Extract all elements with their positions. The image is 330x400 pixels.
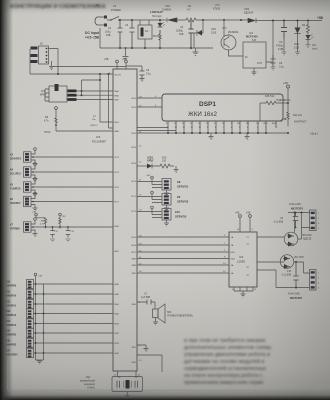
svg-text:IC2: IC2 xyxy=(249,31,254,35)
svg-text:5.1В: 5.1В xyxy=(211,32,216,35)
wire MCU RE2 down right xyxy=(137,355,162,372)
svg-text:MCLR: MCLR xyxy=(115,75,122,77)
capacitor C6 xyxy=(271,55,285,70)
svg-text:13: 13 xyxy=(254,289,256,291)
+5V +12V feeds for IC4 xyxy=(235,212,254,233)
svg-text:DSP1: DSP1 xyxy=(199,101,216,108)
motor2 wires xyxy=(257,262,310,288)
svg-text:RD3: RD3 xyxy=(132,147,137,149)
crystal ZQ1 xyxy=(80,377,143,399)
resistor R15 backlight xyxy=(260,95,291,121)
connector К13 analog xyxy=(6,309,113,318)
IC4 ground pins xyxy=(234,287,253,294)
svg-text:0.1µ 50В: 0.1µ 50В xyxy=(274,222,284,224)
svg-text:510: 510 xyxy=(162,160,167,163)
svg-text:резонатор: резонатор xyxy=(84,384,96,386)
svg-text:SERVO3: SERVO3 xyxy=(175,215,187,219)
svg-text:INT/RB0: INT/RB0 xyxy=(10,228,20,231)
motor1 connector K13 xyxy=(289,203,320,231)
svg-text:применением микросхем серии: применением микросхем серии xyxy=(184,380,263,386)
connector К4 SCL/RC3 xyxy=(10,163,113,182)
svg-text:ГРОМКОГОВОРИТЕЛЬ: ГРОМКОГОВОРИТЕЛЬ xyxy=(167,315,193,318)
svg-text:+5В: +5В xyxy=(32,212,36,214)
svg-text:BLA: BLA xyxy=(272,122,276,125)
capacitor C2 xyxy=(125,20,135,48)
svg-text:RD6: RD6 xyxy=(132,245,137,247)
svg-text:КТ815: КТ815 xyxy=(213,8,221,11)
capacitor C7 xyxy=(137,293,155,305)
svg-text:TxD/RC6: TxD/RC6 xyxy=(10,188,21,191)
ground symbol xyxy=(193,52,199,55)
svg-text:+5В: +5В xyxy=(317,16,324,20)
ground (LCD bus) xyxy=(209,133,214,140)
svg-text:0.1µ 50В: 0.1µ 50В xyxy=(282,275,292,277)
svg-text:R14 10к: R14 10к xyxy=(293,114,303,117)
svg-text:AN3/RA3: AN3/RA3 xyxy=(6,324,17,327)
ground rail top xyxy=(100,28,213,48)
servo connector K9 xyxy=(137,191,189,211)
svg-text:HL3 (кр): HL3 (кр) xyxy=(152,15,162,18)
ground stub right of MCU xyxy=(137,345,149,352)
switch S1 POWER xyxy=(107,4,122,21)
svg-text:+5В: +5В xyxy=(122,58,127,61)
svg-text:GND: GND xyxy=(263,123,268,125)
connector К6 RxD/RC7 xyxy=(10,192,113,211)
wire vertical feeds xyxy=(100,74,113,128)
svg-text:К9: К9 xyxy=(177,195,181,199)
resistor R2 + LED HL1 xyxy=(302,20,318,51)
svg-text:К10: К10 xyxy=(175,210,180,214)
connector K1 DC input xyxy=(85,3,107,40)
svg-text:К17: К17 xyxy=(6,350,11,353)
connector K2 ICSP xyxy=(31,42,49,65)
MCU IC3 PIC16F887 xyxy=(92,69,137,371)
svg-text:RC7: RC7 xyxy=(115,202,120,204)
svg-text:RD2: RD2 xyxy=(132,133,137,135)
connector К17 analog xyxy=(6,348,113,357)
svg-text:C10: C10 xyxy=(287,271,292,273)
svg-text:DC Input: DC Input xyxy=(85,31,100,35)
svg-text:к Выв.1: к Выв.1 xyxy=(310,134,319,136)
zener VD4 xyxy=(294,20,301,56)
svg-text:ЖКИ 16x2: ЖКИ 16x2 xyxy=(188,111,217,118)
motor2 connector K14 xyxy=(288,270,320,301)
svg-text:16В: 16В xyxy=(106,34,111,37)
connector К5 TxD/RC6 xyxy=(10,178,113,197)
svg-text:L293D: L293D xyxy=(237,260,245,264)
connector К10 analog xyxy=(6,279,113,288)
svg-text:К11: К11 xyxy=(6,291,11,294)
LCD pin stubs xyxy=(166,121,278,133)
svg-text:2N3906А: 2N3906А xyxy=(228,31,239,34)
svg-text:S1: S1 xyxy=(113,4,117,8)
ground (IC2) xyxy=(252,72,257,75)
svg-text:VO: VO xyxy=(256,123,259,125)
capacitor C8 xyxy=(140,68,152,82)
resistor R1 xyxy=(186,4,196,22)
svg-text:0.1µ: 0.1µ xyxy=(279,66,284,69)
MCU internal pin labels right xyxy=(132,98,137,364)
svg-text:RC3: RC3 xyxy=(115,172,120,174)
svg-text:16В: 16В xyxy=(179,33,184,36)
svg-text:1µF 50В: 1µF 50В xyxy=(141,296,150,299)
svg-text:AN0/RA0: AN0/RA0 xyxy=(6,295,17,298)
svg-text:К12: К12 xyxy=(6,301,11,304)
capacitor C9 xyxy=(274,212,299,229)
svg-text:+5В: +5В xyxy=(38,276,42,278)
svg-text:RD1: RD1 xyxy=(132,107,137,109)
wire MCU to LCD RS/E xyxy=(137,98,162,107)
svg-text:К10: К10 xyxy=(6,281,11,284)
svg-text:МОТОР2: МОТОР2 xyxy=(290,296,303,300)
svg-text:IC4: IC4 xyxy=(239,255,244,259)
svg-text:+5В: +5В xyxy=(146,175,150,177)
svg-text:RD7: RD7 xyxy=(132,252,137,254)
svg-text:RW: RW xyxy=(237,123,240,125)
svg-text:4: 4 xyxy=(232,289,233,291)
svg-text:ZQ1: ZQ1 xyxy=(86,377,91,379)
svg-text:SDA/RC4: SDA/RC4 xyxy=(10,158,22,161)
svg-text:SERVO2: SERVO2 xyxy=(177,200,189,204)
connector К12 analog xyxy=(6,299,113,308)
svg-text:керамический: керамический xyxy=(80,380,96,383)
transistor VT1 top label xyxy=(213,4,221,11)
svg-text:+5В: +5В xyxy=(104,58,109,61)
capacitor C3 xyxy=(176,20,194,48)
wire LCD ground bus xyxy=(137,132,288,134)
svg-text:RC2: RC2 xyxy=(132,211,137,213)
svg-text:дополнительных элементов схемы: дополнительных элементов схемы xyxy=(184,345,272,351)
svg-text:10к: 10к xyxy=(92,119,95,121)
svg-text:AN2/RA2: AN2/RA2 xyxy=(6,314,17,317)
wire main +V rail xyxy=(122,19,322,22)
ground symbol (left) xyxy=(123,48,129,60)
svg-text:OUT: OUT xyxy=(257,62,263,65)
IC1 small DIP xyxy=(40,84,67,102)
svg-text:R1: R1 xyxy=(188,4,192,8)
svg-text:К8: К8 xyxy=(177,180,181,184)
svg-text:RC6: RC6 xyxy=(115,187,120,189)
zener VD2 5.1V xyxy=(194,20,216,48)
svg-text:К16: К16 xyxy=(6,340,11,343)
servo connector K10 xyxy=(137,206,187,226)
MCU internal pin labels left xyxy=(115,75,122,356)
svg-text:ПУСК: ПУСК xyxy=(44,131,51,134)
svg-text:AN8/RB2: AN8/RB2 xyxy=(6,334,17,337)
IC1 78L05 xyxy=(138,20,160,48)
IC2 regulator MCP1406 xyxy=(243,20,274,73)
svg-text:POWER: POWER xyxy=(111,8,121,12)
diode VD3 on +5V rail xyxy=(244,7,256,23)
svg-text:МОТОР1: МОТОР1 xyxy=(291,207,304,211)
LCD module DSP1 xyxy=(162,94,283,121)
resistors R3 R4 R5 xyxy=(67,79,114,101)
svg-text:4.7: 4.7 xyxy=(187,8,191,12)
svg-text:VD1: VD1 xyxy=(165,4,171,8)
svg-text:PIC16F887: PIC16F887 xyxy=(92,140,107,144)
protection diodes VD5 VD6 xyxy=(284,232,312,246)
svg-text:IC3: IC3 xyxy=(96,135,101,139)
svg-text:на плате контроллера робота с: на плате контроллера робота с xyxy=(184,373,263,379)
wires MCU to resonator xyxy=(118,371,137,377)
LED HL2 + resistor R10 xyxy=(137,157,179,173)
+5V symbol xyxy=(283,81,290,103)
connector К15 analog xyxy=(6,328,113,337)
connector К7 INT/RB0 xyxy=(10,218,113,237)
LED HL3 LOW BAT xyxy=(150,10,165,48)
svg-text:управления двигателями робота: управления двигателями робота и xyxy=(184,352,270,358)
svg-text:и при этом не требуется никаки: и при этом не требуется никаких xyxy=(184,338,266,344)
wire +5V to MCU top xyxy=(53,66,126,68)
capacitor C10 xyxy=(282,262,299,288)
ground (LCD bus right) xyxy=(245,133,250,140)
+5V symbol (left, under IC1) xyxy=(44,107,113,134)
svg-text:10 МГц: 10 МГц xyxy=(87,388,95,390)
protection diodes VD7 VD8 xyxy=(280,255,304,269)
svg-text:RxD/RC7: RxD/RC7 xyxy=(10,202,21,205)
svg-text:6.3В: 6.3В xyxy=(278,48,283,51)
svg-text:ПОДСВЕТКА: ПОДСВЕТКА xyxy=(276,99,291,102)
svg-text:4.7к: 4.7к xyxy=(40,224,44,226)
svg-text:R15 510: R15 510 xyxy=(265,95,275,98)
svg-text:1N4004: 1N4004 xyxy=(162,8,172,12)
svg-text:К13: К13 xyxy=(6,310,11,313)
svg-text:0.1µ: 0.1µ xyxy=(146,73,151,76)
resistor R9 + caps on INT xyxy=(50,213,75,242)
motor1 wires xyxy=(257,213,310,240)
connector К3 SDA/RC4 xyxy=(10,148,113,167)
speaker SP1 xyxy=(153,302,194,325)
connector К16 analog xyxy=(6,338,113,347)
svg-text:серводвигателей установленных: серводвигателей установленных xyxy=(184,365,266,372)
svg-text:IN: IN xyxy=(245,56,248,59)
svg-text:AN9/RB3: AN9/RB3 xyxy=(6,344,17,347)
diode VD1 1N4004 xyxy=(162,4,177,23)
resistor R7 label near MCU left xyxy=(90,116,98,127)
connector К14 analog xyxy=(6,319,113,328)
svg-text:VD5,VD6: VD5,VD6 xyxy=(302,235,312,237)
svg-text:+4.5–15В: +4.5–15В xyxy=(85,36,100,40)
svg-text:MCP1406: MCP1406 xyxy=(246,35,258,39)
servo connector K8 xyxy=(137,175,189,196)
transistor VT1 xyxy=(221,20,243,56)
svg-text:VD7,VD8: VD7,VD8 xyxy=(294,257,304,259)
capacitor C5 xyxy=(276,20,287,56)
svg-text:VD3: VD3 xyxy=(244,7,250,11)
capacitor C1 xyxy=(105,20,123,48)
svg-text:+5В: +5В xyxy=(235,212,240,215)
ground (K2) xyxy=(49,61,54,70)
node xyxy=(119,19,121,21)
svg-text:5-В: 5-В xyxy=(252,39,256,42)
svg-text:AN1/RA1: AN1/RA1 xyxy=(6,305,17,308)
svg-text:SCL/RC3: SCL/RC3 xyxy=(10,173,21,176)
svg-text:К15: К15 xyxy=(6,330,11,333)
svg-text:+5В: +5В xyxy=(283,81,288,85)
trimmer R14 contrast xyxy=(266,103,307,134)
svg-text:RC0: RC0 xyxy=(132,181,137,183)
MCU pin numbers xyxy=(109,73,142,363)
wire MCLR loop xyxy=(30,49,113,75)
svg-text:датчиками на основе модулей и: датчиками на основе модулей и xyxy=(184,358,264,365)
svg-text:(зел): (зел) xyxy=(312,48,318,51)
+5V feed for analog connectors xyxy=(34,273,43,364)
wire LCD data to MCU xyxy=(137,128,176,131)
svg-text:КОНТРАСТ: КОНТРАСТ xyxy=(294,121,307,124)
svg-text:SERVO1: SERVO1 xyxy=(177,185,189,189)
connector К11 analog xyxy=(6,289,113,298)
svg-text:КД243А: КД243А xyxy=(244,11,254,15)
svg-text:AN4/RB0: AN4/RB0 xyxy=(6,285,17,288)
svg-text:СБРОС: СБРОС xyxy=(90,125,98,127)
svg-text:RC4: RC4 xyxy=(115,157,120,159)
svg-text:VT1: VT1 xyxy=(222,27,227,30)
svg-text:К14: К14 xyxy=(6,320,11,323)
resistor R8 pull-up on INT xyxy=(32,212,47,229)
svg-text:КР66: КР66 xyxy=(40,94,47,97)
+5V at MCU top xyxy=(104,58,142,69)
svg-text:5.1В: 5.1В xyxy=(294,47,299,50)
svg-text:КД522Б: КД522Б xyxy=(303,239,312,241)
svg-text:AN11/RB4: AN11/RB4 xyxy=(6,354,18,357)
svg-text:RD0: RD0 xyxy=(132,98,137,100)
IC4 box xyxy=(229,232,257,287)
svg-text:+5В: +5В xyxy=(246,212,251,215)
svg-text:КОНСТРУКЦИИ И СХЕМОТЕХНИКА: КОНСТРУКЦИИ И СХЕМОТЕХНИКА xyxy=(10,4,106,10)
svg-text:RD4: RD4 xyxy=(132,163,137,165)
svg-text:RD5: RD5 xyxy=(132,237,137,239)
svg-text:RC1: RC1 xyxy=(132,196,137,198)
wire MCU to IC4 buses xyxy=(137,237,229,273)
